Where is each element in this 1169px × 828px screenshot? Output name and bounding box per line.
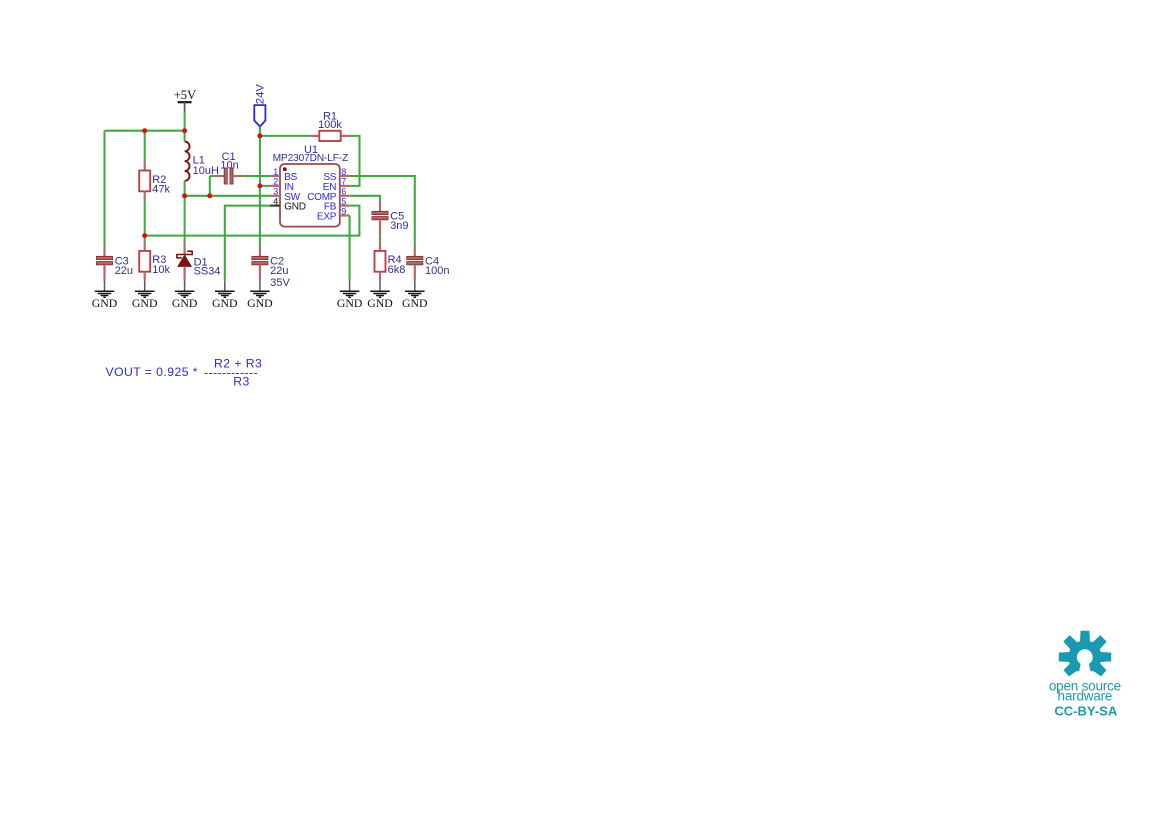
resistor R1 100k (horizontal): [310, 111, 350, 141]
svg-text:100n: 100n: [425, 265, 449, 277]
wire C1 left link: [210, 175, 215, 177]
junction 24V / R1 rail: [257, 133, 262, 138]
inductor L1 10uH: [185, 142, 219, 181]
wire L1 bottom to SW: [184, 181, 186, 196]
svg-text:MP2307DN-LF-Z: MP2307DN-LF-Z: [273, 153, 349, 164]
svg-text:7: 7: [341, 177, 346, 187]
svg-text:6k8: 6k8: [388, 264, 406, 276]
svg-text:3: 3: [273, 187, 278, 197]
capacitor C3 22u: [97, 256, 134, 278]
wire FB to divider: [145, 206, 360, 236]
pin 2 IN: [270, 177, 294, 193]
svg-text:10n: 10n: [220, 159, 238, 171]
svg-text:R3: R3: [233, 375, 249, 389]
svg-text:+5V: +5V: [174, 88, 196, 102]
wire left drop to C3: [103, 131, 105, 247]
junction top rail / R2: [142, 128, 147, 133]
resistor R3 10k: [139, 251, 170, 276]
pin 8 SS: [323, 167, 349, 183]
formula VOUT: [106, 356, 263, 388]
pin-1 marker dot: [283, 167, 287, 171]
svg-text:100k: 100k: [318, 119, 342, 131]
pin 3 SW: [270, 187, 301, 203]
pin 6 COMP: [307, 187, 349, 203]
pin 1 BS: [270, 167, 298, 183]
wire FB junction to R3: [144, 236, 146, 242]
svg-text:47k: 47k: [152, 183, 170, 195]
ground C2: [250, 281, 270, 297]
wire 24V to R1: [260, 135, 310, 137]
ground EXP: [340, 281, 360, 297]
svg-text:SS34: SS34: [194, 266, 221, 278]
wire EXP to gnd: [349, 216, 351, 281]
svg-text:2: 2: [273, 177, 278, 187]
svg-text:4: 4: [273, 196, 278, 206]
svg-text:8: 8: [341, 167, 346, 177]
ground D1: [175, 281, 195, 297]
wire C1 to pin1: [243, 175, 270, 177]
wire C1 branch riser: [209, 176, 211, 196]
svg-text:GND: GND: [92, 296, 118, 310]
op-amp U1 MP2307DN-LF-Z body: [273, 144, 349, 227]
wire L1 top: [184, 131, 186, 142]
junction SW / C1 branch: [207, 193, 212, 198]
svg-text:24V: 24V: [254, 84, 266, 105]
svg-text:GND: GND: [367, 296, 393, 310]
ground R4: [370, 281, 390, 297]
capacitor C4 100n: [407, 256, 450, 278]
svg-text:GND: GND: [132, 296, 158, 310]
svg-text:------------: ------------: [204, 365, 258, 379]
svg-text:EXP: EXP: [317, 212, 337, 223]
svg-text:10k: 10k: [152, 264, 170, 276]
OSHW logo gear: [1059, 631, 1111, 680]
wire SS to C4: [350, 176, 415, 247]
svg-text:GND: GND: [284, 202, 306, 213]
ground C3: [95, 281, 115, 297]
power symbol +5V: [174, 88, 196, 112]
global label 24V: [254, 84, 266, 127]
wire top rail: [105, 130, 185, 132]
wire R1 to EN: [350, 136, 360, 186]
capacitor C2 22u 35V: [252, 256, 291, 289]
wire COMP to C5: [350, 196, 380, 202]
junction SW / L1 / D1: [182, 193, 187, 198]
junction 24V / IN: [257, 183, 262, 188]
ground pin4: [215, 281, 235, 297]
junction top rail / +5V / L1: [182, 128, 187, 133]
pin 5 FB: [324, 196, 350, 212]
svg-text:VOUT = 0.925 *: VOUT = 0.925 *: [106, 365, 198, 379]
svg-text:22u: 22u: [270, 265, 288, 277]
svg-text:5: 5: [341, 196, 346, 206]
capacitor C1 10n (horizontal): [215, 151, 243, 184]
wire 24V rail vertical: [259, 127, 261, 247]
ground R3: [135, 281, 155, 297]
svg-text:GND: GND: [337, 296, 363, 310]
svg-text:22u: 22u: [115, 265, 133, 277]
pin 4 GND: [270, 196, 306, 212]
ground C4: [405, 281, 425, 297]
svg-text:GND: GND: [212, 296, 238, 310]
svg-text:3n9: 3n9: [390, 220, 408, 232]
wire SW rail: [185, 195, 271, 197]
OSHW logo text: [1049, 679, 1121, 719]
diode D1 SS34: [177, 242, 221, 281]
wire C5 to R4: [379, 236, 381, 241]
wire IN link: [260, 185, 270, 187]
svg-text:CC-BY-SA: CC-BY-SA: [1054, 704, 1117, 719]
pin 9 EXP: [317, 206, 350, 222]
wire SW to D1: [184, 196, 186, 242]
svg-text:GND: GND: [172, 296, 198, 310]
pin 7 EN: [323, 177, 350, 193]
svg-text:GND: GND: [247, 296, 273, 310]
svg-text:GND: GND: [402, 296, 428, 310]
svg-text:hardware: hardware: [1058, 689, 1113, 704]
resistor R4 6k8: [375, 251, 406, 276]
wire drop to R2: [144, 131, 146, 161]
capacitor C5 3n9: [372, 211, 409, 233]
junction FB / R2 / R3: [142, 233, 147, 238]
svg-text:1: 1: [273, 167, 278, 177]
svg-text:9: 9: [341, 206, 346, 216]
wire R2 to FB junction: [144, 201, 146, 236]
resistor R2 47k: [139, 171, 170, 196]
svg-text:35V: 35V: [270, 277, 290, 289]
svg-text:6: 6: [341, 187, 346, 197]
wire pin4 to gnd: [225, 206, 270, 281]
wire +5V stub to top rail: [184, 112, 186, 131]
